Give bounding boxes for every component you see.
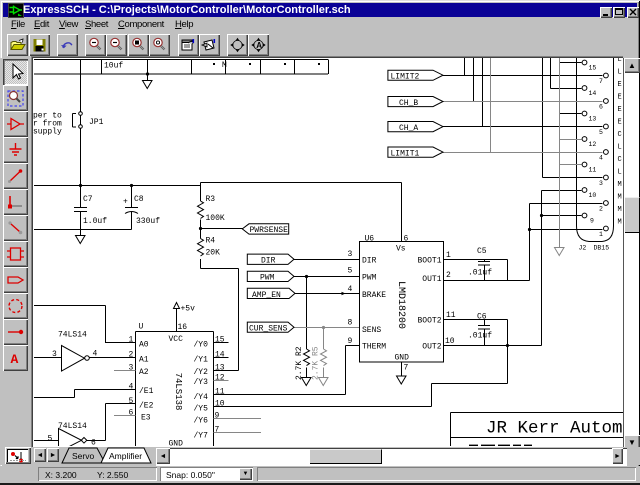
- svg-text:THERM: THERM: [362, 343, 386, 352]
- svg-text:Servo: Servo: [72, 451, 94, 461]
- svg-text:L: L: [618, 144, 622, 152]
- svg-text:L: L: [618, 58, 622, 64]
- svg-text:SENS: SENS: [362, 326, 381, 335]
- svg-text:LIMIT2: LIMIT2: [391, 73, 420, 82]
- svg-text:5: 5: [348, 267, 353, 276]
- svg-text:E: E: [618, 94, 622, 102]
- svg-text:M: M: [618, 219, 622, 227]
- svg-text:L: L: [618, 169, 622, 177]
- svg-text:16: 16: [178, 323, 188, 332]
- svg-text:U6: U6: [365, 235, 375, 244]
- svg-text:supply: supply: [33, 128, 62, 137]
- svg-text:11: 11: [589, 167, 597, 174]
- svg-text:8: 8: [348, 319, 353, 328]
- svg-text:15: 15: [215, 336, 225, 345]
- svg-text:7: 7: [404, 364, 409, 373]
- svg-text:10: 10: [589, 192, 597, 199]
- svg-text:20K: 20K: [206, 249, 221, 258]
- svg-text:10: 10: [215, 400, 225, 409]
- svg-text:7: 7: [215, 426, 220, 435]
- svg-text:12: 12: [589, 141, 597, 148]
- svg-text:.01uf: .01uf: [468, 269, 492, 278]
- svg-text:OUT1: OUT1: [422, 275, 441, 284]
- svg-text:14: 14: [215, 351, 225, 360]
- svg-text:DB15: DB15: [594, 245, 610, 252]
- svg-text:J2: J2: [579, 245, 587, 252]
- svg-text:2: 2: [129, 351, 134, 360]
- svg-text:Amplifier: Amplifier: [109, 451, 142, 461]
- svg-text:A1: A1: [139, 355, 149, 364]
- svg-text:R3: R3: [206, 195, 216, 204]
- svg-text:1.0uf: 1.0uf: [83, 217, 107, 226]
- svg-text:74LS14: 74LS14: [58, 422, 87, 431]
- svg-text:BRAKE: BRAKE: [362, 291, 386, 300]
- svg-text:E3: E3: [141, 413, 151, 422]
- svg-text:1: 1: [129, 336, 134, 345]
- svg-text:1: 1: [446, 251, 451, 260]
- svg-text:E: E: [618, 119, 622, 127]
- svg-text:4: 4: [348, 285, 353, 294]
- svg-text:U: U: [139, 323, 144, 332]
- svg-text:/Y4: /Y4: [194, 393, 209, 402]
- svg-text:11: 11: [446, 311, 456, 320]
- svg-text:2.7K R5: 2.7K R5: [312, 346, 321, 380]
- svg-text:9: 9: [215, 412, 220, 421]
- svg-text:C8: C8: [134, 195, 144, 204]
- svg-text:A: A: [256, 41, 262, 50]
- svg-text:10: 10: [445, 337, 455, 346]
- svg-text:+5v: +5v: [181, 305, 196, 314]
- svg-text:5: 5: [599, 129, 603, 136]
- svg-text:AMP_EN: AMP_EN: [252, 291, 281, 300]
- svg-text:/Y1: /Y1: [194, 355, 209, 364]
- svg-text:4: 4: [599, 155, 603, 162]
- svg-text:+: +: [123, 198, 128, 207]
- svg-text:E: E: [618, 81, 622, 89]
- svg-text:L: L: [618, 69, 622, 77]
- svg-text:/E2: /E2: [139, 402, 154, 411]
- svg-text:74LS138: 74LS138: [173, 373, 183, 411]
- svg-text:/Y3: /Y3: [194, 378, 209, 387]
- svg-text:M: M: [618, 194, 622, 202]
- svg-text:74LS14: 74LS14: [58, 331, 87, 340]
- svg-text:C: C: [618, 156, 622, 164]
- svg-text:3: 3: [599, 180, 603, 187]
- svg-text:CH_B: CH_B: [399, 99, 418, 108]
- svg-text:A: A: [11, 352, 19, 367]
- svg-text:JR Kerr Automation: JR Kerr Automation: [486, 419, 623, 439]
- svg-text:PWM: PWM: [362, 274, 377, 283]
- svg-text:M: M: [222, 61, 227, 70]
- svg-text:R4: R4: [206, 237, 216, 246]
- svg-text:10uf: 10uf: [104, 62, 123, 71]
- svg-text:4: 4: [93, 350, 98, 359]
- svg-text:PWM: PWM: [260, 274, 275, 283]
- svg-text:/Y5: /Y5: [194, 405, 209, 414]
- svg-text:BOOT2: BOOT2: [418, 317, 442, 326]
- svg-text:E: E: [618, 106, 622, 114]
- svg-text:6: 6: [91, 439, 96, 447]
- svg-text:C7: C7: [83, 195, 93, 204]
- svg-text:6: 6: [599, 104, 603, 111]
- svg-text:3: 3: [129, 363, 134, 372]
- svg-text:2: 2: [446, 271, 451, 280]
- svg-text:DIR: DIR: [362, 257, 377, 266]
- svg-text:11: 11: [215, 388, 225, 397]
- svg-text:A2: A2: [139, 368, 149, 377]
- svg-text:C5: C5: [477, 247, 487, 256]
- svg-text:Vs: Vs: [396, 245, 406, 254]
- svg-text:JP1: JP1: [89, 118, 104, 127]
- svg-text:C6: C6: [477, 312, 487, 321]
- svg-text:/Y6: /Y6: [194, 417, 209, 426]
- svg-text:VCC: VCC: [169, 335, 184, 344]
- svg-text:LIMIT1: LIMIT1: [391, 150, 420, 159]
- svg-text:2.7K R2: 2.7K R2: [295, 346, 304, 380]
- svg-text:PWRSENSE: PWRSENSE: [250, 226, 289, 235]
- svg-text:6: 6: [404, 235, 409, 244]
- svg-text:C: C: [618, 131, 622, 139]
- svg-text:3: 3: [52, 350, 57, 359]
- svg-text:14: 14: [589, 90, 597, 97]
- svg-text:/Y2: /Y2: [194, 368, 209, 377]
- svg-text:.01uf: .01uf: [468, 332, 492, 341]
- svg-text:5: 5: [129, 397, 134, 406]
- svg-text:GND: GND: [395, 354, 410, 363]
- svg-text:LMD18200: LMD18200: [395, 281, 406, 329]
- svg-text:A0: A0: [139, 341, 149, 350]
- svg-text:4: 4: [129, 382, 134, 391]
- svg-text:9: 9: [590, 218, 594, 225]
- svg-text:/E1: /E1: [139, 387, 154, 396]
- svg-text:BOOT1: BOOT1: [418, 257, 442, 266]
- svg-text:M: M: [618, 181, 622, 189]
- svg-text:15: 15: [589, 65, 597, 72]
- svg-text:5: 5: [48, 435, 53, 444]
- svg-text:/Y0: /Y0: [194, 341, 209, 350]
- svg-text:6: 6: [129, 409, 134, 418]
- svg-text:M: M: [618, 206, 622, 214]
- svg-text:3: 3: [348, 250, 353, 259]
- svg-text:/Y7: /Y7: [194, 431, 209, 440]
- svg-text:DIR: DIR: [261, 257, 276, 266]
- svg-text:2: 2: [599, 206, 603, 213]
- svg-text:OUT2: OUT2: [422, 343, 441, 352]
- svg-text:7: 7: [599, 78, 603, 85]
- svg-text:13: 13: [215, 363, 225, 372]
- svg-text:9: 9: [348, 337, 353, 346]
- svg-text:GND: GND: [169, 440, 184, 447]
- svg-text:CH_A: CH_A: [399, 124, 418, 133]
- svg-text:1: 1: [599, 231, 603, 238]
- svg-text:100K: 100K: [206, 214, 225, 223]
- svg-text:13: 13: [589, 116, 597, 123]
- svg-text:CUR_SENS: CUR_SENS: [249, 325, 288, 334]
- svg-text:12: 12: [215, 374, 225, 383]
- svg-text:330uf: 330uf: [136, 217, 160, 226]
